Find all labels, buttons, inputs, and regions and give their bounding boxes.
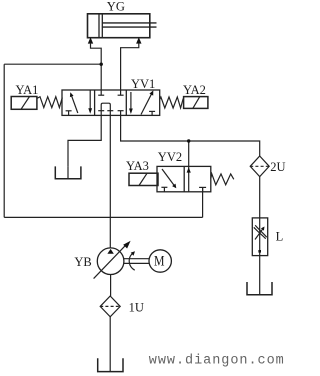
svg-text:YA1: YA1 — [16, 83, 39, 97]
svg-text:YG: YG — [107, 0, 125, 14]
svg-text:YV2: YV2 — [158, 150, 182, 164]
svg-text:M: M — [154, 253, 165, 269]
svg-text:YA2: YA2 — [183, 83, 206, 97]
svg-text:YV1: YV1 — [131, 77, 155, 91]
svg-text:2U: 2U — [270, 160, 285, 174]
svg-text:L: L — [276, 230, 284, 244]
svg-text:YA3: YA3 — [126, 159, 149, 173]
svg-text:1U: 1U — [129, 300, 144, 314]
svg-text:www.diangon.com: www.diangon.com — [149, 353, 285, 368]
svg-text:YB: YB — [74, 255, 91, 269]
